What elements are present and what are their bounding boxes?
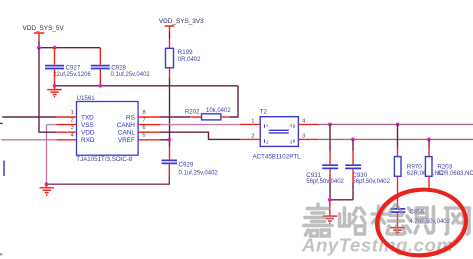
svg-text:C929: C929: [179, 161, 194, 168]
value R203: [437, 171, 473, 177]
svg-text:T2: T2: [260, 109, 268, 116]
svg-text:1: 1: [251, 119, 254, 125]
node stub blue tick at left edge: [3, 161, 5, 177]
pin number 5: [142, 133, 146, 139]
pin name CANH: [117, 122, 135, 129]
pin 4 lead RXD: [57, 139, 77, 141]
pin number 8: [142, 110, 146, 116]
wire C931 top lead: [329, 151, 331, 164]
resistor R970: [394, 157, 401, 177]
value R199: [178, 57, 201, 63]
pin 6 lead CANL: [138, 131, 160, 133]
svg-text:VSS: VSS: [81, 122, 94, 129]
wire VSS stub at left edge: [0, 122, 3, 124]
value R202: [206, 108, 231, 114]
pin name RXD: [81, 137, 95, 144]
pin name CANL: [118, 130, 135, 137]
value R970: [407, 171, 444, 177]
wire VREF stub: [161, 139, 170, 141]
pin number 1: [71, 110, 74, 116]
wire RXD: [1, 139, 56, 141]
svg-text:4: 4: [290, 123, 293, 128]
label C927: [66, 64, 81, 71]
ground G3: [323, 200, 337, 224]
wire R970 to C856: [397, 191, 399, 209]
wire C929 top lead: [169, 147, 171, 160]
pin 2 lead VSS: [57, 124, 77, 126]
wire C856 bottom lead: [397, 213, 399, 227]
node junction 5V-C927: [53, 46, 57, 50]
wire C931 drop: [329, 124, 331, 151]
capacitor C929: [162, 160, 178, 163]
svg-text:1: 1: [266, 123, 269, 128]
svg-text:C930: C930: [352, 172, 367, 179]
wire R202 right lead: [221, 116, 229, 118]
wire CANL bus rail: [318, 138, 473, 140]
transformer T2 core bars: [269, 130, 289, 133]
svg-text:R203: R203: [437, 164, 452, 171]
wire R203 top lead: [428, 148, 430, 157]
svg-text:VDD_SYS_3V3: VDD_SYS_3V3: [159, 18, 204, 25]
pin name VDD: [81, 130, 95, 137]
T2 pin number 2: [251, 134, 254, 140]
ground G4: [390, 228, 404, 235]
svg-text:RS: RS: [126, 114, 135, 121]
svg-text:R202: R202: [185, 109, 200, 116]
power VDD_SYS_3V3 bar symbol: [165, 26, 175, 32]
wire CANL to T2 jog: [161, 132, 241, 139]
wire C927 top lead: [54, 48, 56, 65]
wire CANH bus rail: [318, 123, 473, 125]
node junction gnd rail: [328, 198, 332, 202]
watermark AnyTesting.com: [301, 235, 453, 256]
pin 1 lead TXD: [57, 116, 77, 118]
label R199: [178, 49, 193, 56]
svg-text:CANL: CANL: [118, 130, 135, 137]
wire C928 top lead: [99, 48, 101, 65]
svg-text:VDD_SYS_5V: VDD_SYS_5V: [23, 25, 65, 32]
svg-text:R970: R970: [407, 164, 422, 171]
pin number 7: [142, 117, 145, 123]
capacitor C928: [91, 66, 110, 69]
label R202: [185, 109, 200, 116]
power VDD_SYS_5V bar symbol: [34, 33, 45, 41]
T2 pin 1 lead: [240, 123, 260, 125]
power VDD_SYS_3V3 label: [159, 18, 204, 25]
label U1561: [77, 95, 96, 102]
svg-text:TJA1051T/3,SOIC-8: TJA1051T/3,SOIC-8: [76, 156, 133, 163]
resistor R202: [202, 114, 221, 120]
svg-text:ACT45B1102PTL: ACT45B1102PTL: [253, 153, 302, 160]
transformer T2 body: [260, 117, 298, 147]
pin name RS: [126, 114, 135, 121]
svg-text:10k,0402: 10k,0402: [206, 108, 231, 114]
svg-text:56pf,50v,0402: 56pf,50v,0402: [306, 179, 344, 185]
pin name VREF: [118, 137, 135, 144]
wire C930 to gnd rail: [352, 183, 354, 200]
wire R203 drop: [428, 139, 430, 147]
ground G1: [47, 86, 61, 97]
capacitor C931: [322, 165, 338, 168]
node junction R203: [427, 138, 431, 142]
svg-text:R199: R199: [178, 49, 193, 56]
wire R970 bottom lead: [397, 176, 399, 190]
watermark chinese characters: [304, 204, 470, 236]
capacitor C856: [390, 209, 405, 212]
node junction C927-gnd: [53, 84, 57, 88]
node junction VREF-C929: [167, 138, 171, 142]
wire VDD vertical: [39, 48, 57, 133]
svg-text:62R,0603,NC: 62R,0603,NC: [437, 171, 473, 177]
wire C930 top lead: [352, 151, 354, 164]
T2 pin 3 lead: [298, 138, 318, 140]
svg-text:22uf,25v,1206: 22uf,25v,1206: [53, 72, 91, 78]
wire C931 to gnd rail: [329, 183, 331, 200]
pin 3 lead VDD: [57, 131, 77, 133]
svg-text:2: 2: [251, 134, 254, 140]
node stub bottom-left corner: [0, 253, 2, 256]
pin name TXD: [81, 114, 94, 121]
wire gnd rail C931-C930: [330, 199, 353, 201]
value C930: [352, 179, 390, 185]
power VDD_SYS_5V label: [23, 25, 65, 32]
value C856: [409, 219, 450, 225]
T2 pin 4 lead: [298, 123, 318, 125]
wire R970 top lead: [397, 148, 399, 157]
svg-text:C931: C931: [306, 172, 321, 179]
svg-text:C928: C928: [111, 64, 126, 71]
capacitor C930: [345, 165, 361, 168]
svg-text:2: 2: [71, 117, 74, 123]
wire R202 left lead: [190, 116, 201, 118]
wire VSS vertical: [46, 125, 48, 185]
node junction R970: [396, 123, 400, 127]
T2 pin number 4: [302, 119, 306, 125]
svg-text:0R,0402: 0R,0402: [178, 57, 201, 63]
T2 pin number 1: [251, 119, 254, 125]
svg-text:VREF: VREF: [118, 137, 135, 144]
resistor R199: [166, 48, 174, 68]
value C929: [179, 170, 219, 176]
node junction VSS-gnd: [45, 182, 49, 186]
value TJA1051T/3,SOIC-8: [76, 156, 133, 163]
pin 8 lead RS: [138, 116, 160, 118]
pin number 6: [142, 125, 146, 131]
label R970: [407, 164, 422, 171]
wire RS to R202: [161, 116, 191, 118]
value C928: [111, 72, 151, 78]
wire ground rail: [55, 85, 239, 87]
label C931: [306, 172, 321, 179]
pin 7 lead CANH: [138, 124, 160, 126]
value C927: [53, 72, 91, 78]
svg-text:0.1uf,25v,0402: 0.1uf,25v,0402: [111, 72, 151, 78]
svg-text:TXD: TXD: [81, 114, 94, 121]
wire R203 bottom lead NC: [428, 176, 430, 192]
label C856: [409, 209, 424, 216]
node junction 5V-VDD: [37, 46, 41, 50]
annotation red circle around C856: [375, 185, 469, 259]
capacitor C927: [45, 66, 64, 69]
wire R199 to VREF vertical: [169, 78, 171, 147]
value C931: [306, 179, 344, 185]
pin name VSS: [81, 122, 94, 129]
svg-text:7: 7: [142, 117, 145, 123]
ground G2: [40, 184, 54, 195]
wire TXD: [2, 116, 56, 118]
svg-text:VDD: VDD: [81, 130, 95, 137]
wire C928 bottom lead: [99, 69, 101, 85]
T2 pin 2 lead: [240, 138, 260, 140]
wire 5V stem: [38, 41, 40, 48]
label T2: [260, 109, 268, 116]
wire CANH to T2: [161, 124, 241, 126]
svg-text:0.1uf,25v,0402: 0.1uf,25v,0402: [179, 170, 219, 176]
resistor R203: [425, 157, 432, 177]
svg-text:C927: C927: [66, 64, 81, 71]
wire C931 bottom lead: [329, 169, 331, 183]
wire R970 drop: [397, 124, 399, 147]
label R203: [437, 164, 452, 171]
wire R199 top lead: [169, 39, 171, 49]
T2 pin number 3: [302, 134, 306, 140]
label C928: [111, 64, 126, 71]
op-amp/transceiver U1561 body: [77, 102, 139, 156]
svg-text:3: 3: [290, 139, 293, 144]
wire C930 drop: [352, 139, 354, 151]
wire 3V3 stem: [169, 32, 171, 39]
pin number 3: [71, 125, 75, 131]
node junction C931: [328, 123, 332, 127]
wire R202 drop: [229, 86, 238, 117]
wire C929 bottom lead: [168, 164, 170, 176]
value ACT45B1102PTL: [253, 153, 302, 160]
node junction C928-gnd: [98, 84, 102, 88]
pin 5 lead VREF: [138, 139, 160, 141]
transformer T2 inner pin marks: [265, 123, 295, 144]
wire C930 bottom lead: [352, 169, 354, 183]
svg-text:1: 1: [71, 110, 74, 116]
wire 5V rail: [39, 47, 100, 49]
pin number 2: [71, 117, 74, 123]
svg-text:CANH: CANH: [117, 122, 135, 129]
pin number 4: [71, 133, 75, 139]
label C930: [352, 172, 367, 179]
wire VSS horizontal: [47, 124, 57, 126]
wire R199 bottom lead: [169, 68, 171, 78]
svg-text:RXD: RXD: [81, 137, 95, 144]
svg-text:2: 2: [266, 139, 269, 144]
wire C927 bottom lead: [54, 69, 56, 85]
svg-text:56pf,50v,0402: 56pf,50v,0402: [352, 179, 390, 185]
label C929: [179, 161, 194, 168]
svg-text:U1561: U1561: [77, 95, 96, 102]
wire C929 to gnd rail: [47, 176, 170, 184]
node junction C930: [351, 138, 355, 142]
